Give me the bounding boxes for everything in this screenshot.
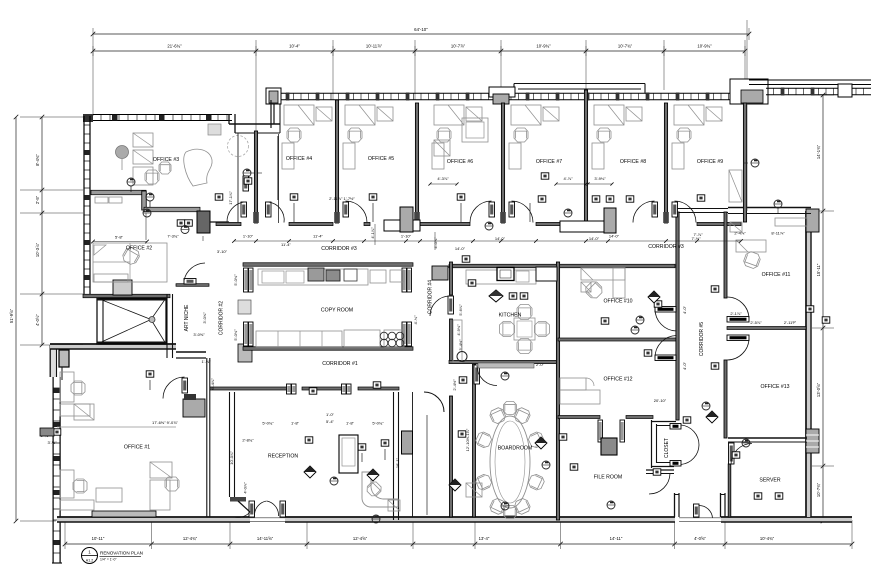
svg-text:14'-0": 14'-0" bbox=[455, 246, 466, 251]
svg-text:10'-0⅞": 10'-0⅞" bbox=[229, 451, 234, 465]
svg-text:2'-1⅞": 2'-1⅞" bbox=[730, 311, 742, 316]
svg-text:CORRIDOR #4: CORRIDOR #4 bbox=[428, 280, 434, 314]
svg-text:2'-11⅞" 1'-7½": 2'-11⅞" 1'-7½" bbox=[329, 196, 355, 201]
svg-text:10'-7¾": 10'-7¾" bbox=[816, 482, 821, 497]
svg-text:14'-0": 14'-0" bbox=[609, 234, 620, 239]
svg-text:FILE ROOM: FILE ROOM bbox=[594, 475, 623, 481]
svg-text:21'-6¾": 21'-6¾" bbox=[167, 44, 182, 49]
svg-text:ART NICHE: ART NICHE bbox=[184, 304, 190, 331]
svg-text:OFFICE #9: OFFICE #9 bbox=[697, 159, 723, 165]
svg-text:1'-0": 1'-0" bbox=[326, 412, 335, 417]
svg-text:17'-1⅞": 17'-1⅞" bbox=[228, 191, 233, 205]
svg-text:CORRIDOR #3: CORRIDOR #3 bbox=[648, 244, 684, 250]
svg-text:KITCHEN: KITCHEN bbox=[499, 313, 522, 319]
svg-text:3'-9⅛": 3'-9⅛" bbox=[594, 176, 606, 181]
svg-text:2'-4⅞": 2'-4⅞" bbox=[734, 231, 746, 236]
svg-text:5'-0¾": 5'-0¾" bbox=[372, 421, 384, 426]
svg-text:A1.2: A1.2 bbox=[86, 559, 93, 563]
svg-text:3'-0⅝": 3'-0⅝" bbox=[193, 332, 205, 337]
svg-text:4'-⅞": 4'-⅞" bbox=[563, 176, 573, 181]
svg-text:4'-0⅞": 4'-0⅞" bbox=[243, 482, 248, 494]
svg-text:3'-10": 3'-10" bbox=[217, 249, 228, 254]
svg-text:7'-½": 7'-½" bbox=[691, 236, 701, 241]
svg-text:OFFICE #1: OFFICE #1 bbox=[124, 445, 150, 451]
svg-text:51'-9⅝": 51'-9⅝" bbox=[9, 308, 14, 323]
svg-text:4'-0": 4'-0" bbox=[682, 361, 687, 370]
svg-text:13'-4": 13'-4" bbox=[479, 536, 490, 541]
svg-text:RENOVATION PLAN: RENOVATION PLAN bbox=[100, 551, 143, 556]
svg-text:SERVER: SERVER bbox=[759, 478, 780, 484]
svg-text:20'-10": 20'-10" bbox=[654, 398, 667, 403]
svg-text:15'-11": 15'-11" bbox=[816, 263, 821, 276]
svg-text:2'-8¾": 2'-8¾" bbox=[242, 438, 254, 443]
svg-text:7'-3¾": 7'-3¾" bbox=[167, 234, 179, 239]
svg-text:10'-9¾": 10'-9¾" bbox=[697, 44, 712, 49]
svg-text:5'-0¾": 5'-0¾" bbox=[233, 274, 238, 286]
svg-text:12'-10½-1⅞": 12'-10½-1⅞" bbox=[465, 428, 470, 451]
svg-text:OFFICE #7: OFFICE #7 bbox=[536, 159, 562, 165]
svg-text:3'-0⅝": 3'-0⅝" bbox=[202, 312, 207, 324]
svg-text:11'-4": 11'-4" bbox=[313, 234, 323, 239]
svg-text:3'-4½": 3'-4½" bbox=[458, 339, 463, 351]
svg-text:2'-5": 2'-5" bbox=[35, 195, 40, 204]
svg-text:CORRIDOR #3: CORRIDOR #3 bbox=[321, 246, 357, 252]
svg-text:12'-4⅝": 12'-4⅝" bbox=[353, 536, 368, 541]
svg-text:RECEPTION: RECEPTION bbox=[268, 454, 299, 460]
svg-text:OFFICE #12: OFFICE #12 bbox=[603, 377, 632, 383]
svg-text:5'-0¾": 5'-0¾" bbox=[262, 421, 274, 426]
svg-text:1'-10": 1'-10" bbox=[243, 234, 254, 239]
svg-text:10'-7⅞": 10'-7⅞" bbox=[451, 44, 466, 49]
svg-text:4'-0½": 4'-0½" bbox=[35, 314, 40, 326]
svg-text:10'-7¾": 10'-7¾" bbox=[618, 44, 633, 49]
svg-text:2'-11⅟": 2'-11⅟" bbox=[784, 320, 797, 325]
svg-text:6'-4⅞": 6'-4⅞" bbox=[210, 378, 215, 390]
svg-text:8'-4¾": 8'-4¾" bbox=[35, 154, 40, 166]
svg-text:2'-5⅞": 2'-5⅞" bbox=[750, 320, 762, 325]
svg-text:1'-⅜": 1'-⅜" bbox=[201, 359, 211, 364]
svg-text:2'-4½": 2'-4½" bbox=[452, 379, 457, 391]
svg-text:4'-1⅞": 4'-1⅞" bbox=[370, 227, 375, 239]
svg-text:1'-8": 1'-8" bbox=[346, 421, 355, 426]
svg-text:OFFICE #2: OFFICE #2 bbox=[126, 246, 152, 252]
svg-text:OFFICE #5: OFFICE #5 bbox=[368, 156, 394, 162]
svg-text:14'-0": 14'-0" bbox=[589, 236, 600, 241]
svg-text:4'-0⅝": 4'-0⅝" bbox=[433, 237, 438, 249]
svg-text:CORRIDOR #5: CORRIDOR #5 bbox=[699, 322, 705, 356]
svg-text:11'-4": 11'-4" bbox=[281, 242, 291, 247]
svg-text:14'-11⅝": 14'-11⅝" bbox=[257, 536, 274, 541]
svg-text:CORRIDOR #2: CORRIDOR #2 bbox=[219, 301, 225, 335]
svg-text:10'-4": 10'-4" bbox=[289, 44, 300, 49]
svg-text:10'-4¾": 10'-4¾" bbox=[760, 536, 775, 541]
svg-text:10'-3⅞": 10'-3⅞" bbox=[35, 242, 40, 257]
svg-text:14'-0": 14'-0" bbox=[495, 236, 506, 241]
svg-text:4'-9¾": 4'-9¾" bbox=[456, 324, 461, 336]
svg-text:OFFICE #6: OFFICE #6 bbox=[447, 159, 473, 165]
svg-text:OFFICE #8: OFFICE #8 bbox=[620, 159, 646, 165]
svg-text:BOARDROOM: BOARDROOM bbox=[498, 446, 533, 452]
svg-text:8'-11⅞": 8'-11⅞" bbox=[771, 231, 785, 236]
svg-text:COPY ROOM: COPY ROOM bbox=[321, 308, 353, 314]
svg-text:4'-3⅞": 4'-3⅞" bbox=[437, 176, 449, 181]
svg-text:5'-6⅞": 5'-6⅞" bbox=[458, 304, 463, 316]
svg-text:5'-0¾": 5'-0¾" bbox=[233, 329, 238, 341]
svg-text:4'-¾": 4'-¾" bbox=[413, 315, 418, 325]
svg-text:1'-10": 1'-10" bbox=[401, 234, 412, 239]
svg-text:1'-8": 1'-8" bbox=[291, 421, 300, 426]
svg-text:4'-0": 4'-0" bbox=[682, 305, 687, 314]
svg-text:5'-4": 5'-4" bbox=[326, 419, 335, 424]
svg-text:2'-0": 2'-0" bbox=[536, 362, 545, 367]
svg-text:3'-½": 3'-½" bbox=[47, 440, 57, 445]
svg-text:14'-1¾": 14'-1¾" bbox=[816, 144, 821, 159]
svg-text:14'-11": 14'-11" bbox=[610, 536, 623, 541]
svg-text:OFFICE #10: OFFICE #10 bbox=[603, 299, 632, 305]
svg-text:10'-11⅞": 10'-11⅞" bbox=[366, 44, 383, 49]
svg-text:64'-10": 64'-10" bbox=[414, 27, 428, 32]
svg-text:CORRIDOR #1: CORRIDOR #1 bbox=[322, 361, 358, 367]
svg-text:OFFICE #4: OFFICE #4 bbox=[286, 156, 312, 162]
svg-text:10'-11": 10'-11" bbox=[92, 536, 105, 541]
svg-text:17'-6⅝" 9'-0⅞": 17'-6⅝" 9'-0⅞" bbox=[152, 420, 179, 425]
svg-text:OFFICE #13: OFFICE #13 bbox=[760, 384, 789, 390]
svg-text:13'-0⅝": 13'-0⅝" bbox=[816, 382, 821, 397]
svg-text:CLOSET: CLOSET bbox=[664, 438, 670, 458]
svg-text:OFFICE #11: OFFICE #11 bbox=[762, 272, 791, 278]
svg-text:1/4" = 1'-0": 1/4" = 1'-0" bbox=[100, 558, 117, 562]
svg-text:4'-0⅝": 4'-0⅝" bbox=[694, 536, 706, 541]
svg-text:16'-1": 16'-1" bbox=[395, 457, 400, 468]
svg-text:10'-9¾": 10'-9¾" bbox=[536, 44, 551, 49]
svg-text:12'-4¾": 12'-4¾" bbox=[183, 536, 198, 541]
svg-text:OFFICE #3: OFFICE #3 bbox=[153, 157, 179, 163]
svg-text:5'-8": 5'-8" bbox=[115, 235, 124, 240]
